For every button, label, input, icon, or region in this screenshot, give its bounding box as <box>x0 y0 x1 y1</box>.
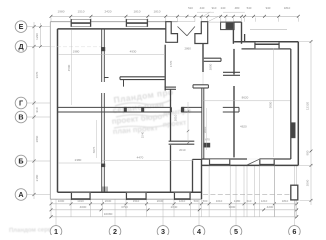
svg-text:1810: 1810 <box>282 199 289 203</box>
svg-text:1480: 1480 <box>234 199 241 203</box>
svg-text:4200: 4200 <box>267 205 274 209</box>
svg-text:А: А <box>18 190 23 199</box>
svg-text:1210: 1210 <box>261 199 268 203</box>
svg-text:Е: Е <box>19 22 24 31</box>
svg-text:4500: 4500 <box>67 64 71 71</box>
svg-text:4620: 4620 <box>240 125 247 129</box>
svg-text:1810: 1810 <box>154 9 161 13</box>
svg-text:2420: 2420 <box>105 9 112 13</box>
svg-text:2800: 2800 <box>209 63 213 70</box>
svg-text:2380: 2380 <box>75 158 82 162</box>
svg-text:6: 6 <box>292 227 296 235</box>
svg-text:900: 900 <box>306 150 310 155</box>
svg-text:3670: 3670 <box>35 71 39 78</box>
svg-text:4: 4 <box>197 227 201 235</box>
svg-text:В: В <box>18 113 23 122</box>
svg-text:2060: 2060 <box>305 179 309 186</box>
svg-text:1010: 1010 <box>216 199 223 203</box>
svg-text:480: 480 <box>235 6 240 10</box>
svg-text:2010: 2010 <box>179 148 186 152</box>
svg-text:670: 670 <box>205 138 210 142</box>
svg-text:1510: 1510 <box>78 9 85 13</box>
svg-text:1980: 1980 <box>58 9 65 13</box>
svg-text:8620: 8620 <box>242 96 249 100</box>
svg-text:3790: 3790 <box>121 205 128 209</box>
svg-text:1000: 1000 <box>58 199 65 203</box>
svg-text:510: 510 <box>188 6 193 10</box>
svg-text:500: 500 <box>203 199 208 203</box>
svg-text:440: 440 <box>200 6 205 10</box>
svg-text:540: 540 <box>247 6 252 10</box>
svg-text:4930: 4930 <box>130 49 137 53</box>
svg-text:1770: 1770 <box>169 60 173 67</box>
svg-text:4000: 4000 <box>80 205 87 209</box>
svg-text:Д: Д <box>18 42 23 51</box>
svg-text:Г: Г <box>19 99 23 108</box>
svg-text:610: 610 <box>247 199 252 203</box>
svg-text:Б: Б <box>18 157 23 166</box>
svg-text:940: 940 <box>266 6 271 10</box>
svg-text:2030: 2030 <box>157 199 164 203</box>
svg-text:240: 240 <box>221 6 226 10</box>
svg-text:4470: 4470 <box>137 155 144 159</box>
svg-text:2630: 2630 <box>105 199 112 203</box>
svg-text:1540: 1540 <box>141 131 145 138</box>
svg-text:2010: 2010 <box>174 114 178 121</box>
svg-text:500: 500 <box>194 199 199 203</box>
svg-text:2: 2 <box>113 227 117 235</box>
svg-text:2860: 2860 <box>35 135 39 142</box>
svg-text:12320: 12320 <box>305 101 309 110</box>
svg-text:1: 1 <box>54 227 58 235</box>
svg-text:5000: 5000 <box>269 101 273 108</box>
svg-text:5: 5 <box>234 227 238 235</box>
svg-text:16080: 16080 <box>104 212 113 216</box>
svg-text:1810: 1810 <box>284 6 291 10</box>
svg-text:3: 3 <box>161 227 165 235</box>
svg-text:3000: 3000 <box>229 205 236 209</box>
svg-text:2860: 2860 <box>184 47 191 51</box>
svg-text:2180: 2180 <box>35 174 39 181</box>
svg-text:6076: 6076 <box>92 146 96 153</box>
svg-text:910: 910 <box>212 6 217 10</box>
svg-text:1810: 1810 <box>134 9 141 13</box>
svg-text:910: 910 <box>35 107 39 112</box>
svg-text:1290: 1290 <box>35 33 39 40</box>
svg-text:1980: 1980 <box>73 49 80 53</box>
